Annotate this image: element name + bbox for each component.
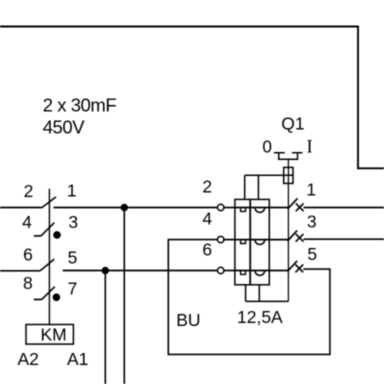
svg-text:6: 6 <box>23 245 33 265</box>
KM mechanical link <box>48 189 50 325</box>
contactor KM pole 4-3 moving contact <box>41 223 54 236</box>
KM pole 8-7 terminal stub <box>34 299 42 301</box>
wire circle4 to fuse box <box>224 239 235 241</box>
contactor KM pole 2-1 moving contact <box>42 197 57 208</box>
breaker cross mark 1 <box>296 203 304 211</box>
thermal element row6 <box>241 271 246 275</box>
wire row1 fuse box to breaker pole 1 <box>269 207 289 209</box>
svg-text:7: 7 <box>68 278 78 298</box>
wire supply top loop <box>0 27 384 169</box>
switch Q1 operator stem <box>287 159 289 301</box>
svg-text:450V: 450V <box>43 116 86 137</box>
contactor coil KM box <box>26 325 73 345</box>
svg-text:12,5A: 12,5A <box>237 307 283 327</box>
svg-text:1: 1 <box>67 181 77 201</box>
svg-text:2: 2 <box>202 177 212 197</box>
wire row6 fuse box to breaker pole 5 <box>269 270 289 272</box>
svg-text:6: 6 <box>202 239 212 259</box>
svg-text:5: 5 <box>307 244 317 264</box>
magnetic element row4 <box>255 240 265 245</box>
terminal circle 6 of fuse unit <box>218 267 224 273</box>
breaker contact 1 <box>288 198 298 209</box>
terminal dot pin 3 <box>53 231 61 239</box>
thermal element row1 <box>241 208 246 212</box>
svg-text:0: 0 <box>262 136 272 156</box>
terminal circle 4 of fuse unit <box>218 236 224 242</box>
magnetic element row1 <box>255 208 265 213</box>
fuse-switch BU divider <box>249 199 251 284</box>
wire row1 left (to capacitor) <box>0 207 42 209</box>
svg-text:3: 3 <box>307 212 317 232</box>
wire row1 through fuse box <box>235 207 269 209</box>
wire row6 through fuse box <box>235 270 269 272</box>
svg-text:I: I <box>307 137 313 157</box>
svg-text:A2: A2 <box>17 349 38 369</box>
wire row4 loop from contact5 through bottom to fuse terminal 4 <box>168 240 330 355</box>
svg-text:Q1: Q1 <box>281 114 304 134</box>
svg-text:BU: BU <box>176 310 200 330</box>
junction row6 <box>102 267 109 274</box>
svg-text:4: 4 <box>22 212 32 232</box>
fuse-switch BU outline <box>235 199 269 284</box>
svg-text:2 x 30mF: 2 x 30mF <box>43 94 117 115</box>
wire circle6 to fuse box <box>224 270 235 272</box>
switch Q1 handle <box>274 153 303 160</box>
svg-text:3: 3 <box>68 212 78 232</box>
mechanical frame bottom <box>246 285 289 302</box>
thermal element row4 <box>241 240 246 244</box>
contactor KM pole 6-5 moving contact <box>40 259 54 271</box>
wire vertical from row1 junction to bottom edge <box>123 208 125 384</box>
wire row1 right <box>54 207 218 209</box>
wire circle2 to fuse box <box>224 207 235 209</box>
terminal circle 2 of fuse unit <box>218 204 224 210</box>
contactor KM pole 8-7 moving contact <box>42 287 55 300</box>
terminal dot pin 7 <box>53 294 61 302</box>
breaker contact 5 <box>287 261 297 272</box>
wire row4 through fuse box <box>235 239 269 241</box>
wire row6 right <box>63 270 218 272</box>
svg-text:2: 2 <box>24 181 34 201</box>
KM pole 4-3 terminal stub <box>34 235 41 237</box>
svg-text:1: 1 <box>306 179 316 199</box>
wire row4 output right <box>303 238 384 240</box>
wire vertical from row6 junction to bottom edge <box>104 271 106 384</box>
svg-text:4: 4 <box>202 208 212 228</box>
wire row1 output right <box>304 207 384 209</box>
svg-text:5: 5 <box>68 248 78 268</box>
svg-text:A1: A1 <box>67 349 88 369</box>
breaker cross mark 5 <box>295 265 303 273</box>
svg-text:8: 8 <box>23 273 33 293</box>
mechanical frame top <box>245 175 293 199</box>
switch Q1 latch box <box>284 167 293 183</box>
wire row4 fuse box to breaker pole 3 <box>269 239 289 241</box>
wire row6 left (to capacitor) <box>0 270 40 272</box>
breaker contact 3 <box>288 230 298 241</box>
magnetic element row6 <box>255 271 265 276</box>
svg-text:KM: KM <box>40 324 66 344</box>
junction row1 <box>121 204 128 211</box>
breaker cross mark 3 <box>296 234 304 242</box>
